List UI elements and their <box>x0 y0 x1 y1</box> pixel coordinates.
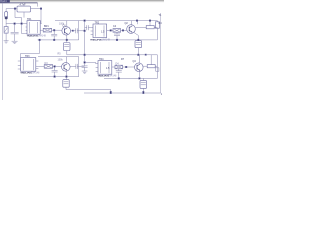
svg-text:TR3: TR3 <box>25 55 30 58</box>
svg-text:TRAN-2P2S: TRAN-2P2S <box>27 34 39 37</box>
svg-text:1N4148: 1N4148 <box>108 74 117 77</box>
svg-text:100k: 100k <box>59 23 65 26</box>
svg-text:Root1: Root1 <box>0 0 7 3</box>
svg-text:100k: 100k <box>58 58 64 61</box>
svg-text:TRAN-2P2S: TRAN-2P2S <box>90 38 102 41</box>
svg-text:BR1: BR1 <box>44 25 49 28</box>
svg-text:TRAN-2P2S: TRAN-2P2S <box>98 74 110 77</box>
svg-text:TR4: TR4 <box>99 58 104 61</box>
svg-text:1N4148: 1N4148 <box>38 34 47 37</box>
svg-text:4.7nF: 4.7nF <box>20 4 27 7</box>
svg-text:TR2: TR2 <box>95 22 100 25</box>
svg-text:TRAN-2P2S: TRAN-2P2S <box>20 71 32 74</box>
svg-text:1N4148: 1N4148 <box>31 71 40 74</box>
svg-text:1N4148: 1N4148 <box>102 38 111 41</box>
svg-text:TR1: TR1 <box>27 18 32 21</box>
